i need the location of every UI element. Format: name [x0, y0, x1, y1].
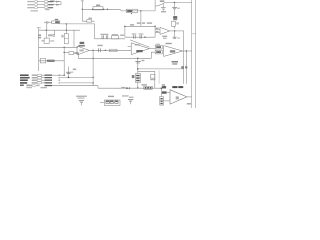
resistor R20 box	[87, 20, 92, 23]
wire loop right vertical	[154, 26, 156, 37]
label above K2	[108, 96, 114, 97]
op-amp U2A triangle	[131, 43, 149, 55]
wire U3 output	[187, 96, 192, 98]
relay K2 cell 3	[115, 101, 118, 104]
connector J1 note text row 4	[31, 10, 38, 11]
connector J2 pin box row 3	[37, 79, 41, 81]
label under U1A	[162, 36, 167, 37]
label above C12	[132, 33, 137, 34]
node loop top right	[154, 26, 155, 27]
connector J2 pin box row 5	[33, 85, 36, 87]
connector J1 pin label row 3	[27, 7, 34, 8]
node input rail	[63, 47, 64, 48]
wire row3 lead a	[42, 79, 45, 81]
wire C8 top lead	[174, 31, 176, 37]
op-amp U2B triangle	[164, 46, 183, 57]
node J2 row1 end	[63, 75, 64, 76]
wire row5 corner down	[97, 86, 99, 89]
wire loop left vertical	[124, 26, 126, 37]
capacitor C3 box row3	[45, 7, 48, 9]
wire node down to R19	[160, 88, 162, 96]
wire drop from S1 to R5	[46, 23, 48, 30]
resistor R11 box	[155, 45, 162, 49]
capacitor C6 plates	[172, 7, 177, 9]
label above R11	[156, 44, 160, 45]
wire top rail left	[82, 9, 155, 11]
wire U2A minus stub	[128, 45, 132, 47]
wire right vertical bus A	[183, 31, 185, 84]
wire V9 vertical x154.8	[154, 71, 156, 88]
wire rail y68.9	[138, 68, 184, 70]
connector J2 small text row 1	[32, 75, 37, 76]
optocoupler U4 bar 3	[150, 87, 152, 89]
label above R1	[50, 0, 55, 1]
label U2B inside	[170, 50, 175, 52]
capacitor C11 plates	[106, 35, 108, 39]
label right of R4	[176, 22, 179, 24]
node top rail right	[140, 10, 141, 11]
wire corner drop x94.6	[94, 24, 96, 39]
switch S1 box	[52, 21, 60, 24]
wire into S1	[44, 21, 52, 23]
label U3 input net top	[162, 86, 166, 88]
label under row3	[45, 9, 50, 10]
connector J1 pin box row 2	[35, 4, 38, 6]
capacitor C13 plates	[140, 35, 142, 39]
label D2 left	[121, 87, 125, 88]
capacitor C15 plates	[99, 48, 101, 52]
label C6 plus mark	[177, 8, 179, 9]
connector J3 marks second	[38, 37, 41, 39]
wire U1B output rail y48.1	[89, 49, 131, 51]
label above C13	[139, 33, 144, 34]
wire V2 vertical x64.2	[63, 47, 65, 75]
wire V3 vertical x68.3	[68, 67, 70, 78]
wire row1 lead a	[42, 74, 45, 76]
resistor R4 box	[172, 21, 176, 26]
diode D2 bar	[128, 87, 130, 89]
label GND net left	[80, 42, 85, 44]
border rail left line	[191, 0, 193, 108]
diode D1 inner mark	[127, 10, 132, 12]
relay K2 cell 2 top	[110, 101, 113, 102]
label above U2B LM358	[166, 43, 172, 44]
wire rail y38.8	[95, 38, 125, 40]
connector J2 small text row 4	[32, 82, 37, 83]
relay K2 cell 3 top	[115, 101, 118, 102]
diode D3 box	[151, 74, 155, 78]
connector J2 pin box row 4	[37, 82, 41, 84]
label under U2B second	[172, 63, 177, 64]
bus V1 tee top	[37, 27, 41, 29]
op-amp U1A triangle	[160, 27, 170, 34]
connector J1 pin box row 3	[35, 7, 38, 9]
wire row2 lead a	[42, 77, 45, 79]
resistor R11 inner bar	[156, 46, 161, 48]
resistor R2 body	[48, 4, 54, 5]
wire drop to R5	[46, 30, 48, 38]
wire U3 minus input	[163, 100, 170, 102]
node after C15	[105, 50, 106, 51]
label above loop right	[147, 22, 152, 23]
wire C19 bottom lead	[130, 101, 132, 104]
resistor R13 band 3	[136, 80, 140, 82]
label C9 value	[48, 34, 52, 36]
connector J1 pin label row 1	[27, 1, 34, 2]
resistor R9 body	[47, 60, 55, 62]
wire through R20	[82, 20, 94, 22]
wire stub up x151.3	[151, 52, 155, 58]
relay K2 cell 1 top	[106, 101, 109, 102]
label above U1B	[79, 45, 85, 47]
wire drop from +12V node	[81, 9, 83, 21]
wire mid rail y58.3	[78, 57, 151, 59]
resistor R8 box	[69, 52, 74, 55]
wire mid rail y30	[39, 29, 80, 31]
contact mark row2	[59, 77, 61, 78]
wire U3 plus input	[167, 91, 170, 93]
node at +12V rail	[82, 9, 83, 10]
wire into K2	[100, 101, 104, 103]
contact mark row4	[59, 82, 61, 83]
resistor R17 body	[45, 82, 53, 83]
wire loop vertical	[60, 2, 62, 5]
wire bottom bus y88.5	[98, 87, 161, 89]
relay K2 box	[104, 100, 120, 105]
node V2 tap	[63, 52, 64, 53]
connector J2 small text row 3	[32, 80, 37, 81]
wire vertical x155 top	[154, 0, 156, 11]
connector J2 bold label row 1	[20, 74, 29, 76]
resistor R13 band 1	[136, 75, 140, 77]
wire top-right rail	[165, 2, 192, 4]
node loop top left	[124, 26, 125, 27]
wire V4 vertical x92.9	[92, 50, 94, 85]
resistor R6 box	[64, 34, 68, 44]
label U2A inside	[136, 50, 142, 52]
wire feedback diagonal U2A	[130, 40, 150, 47]
label C17	[73, 69, 76, 71]
diode D2 triangle	[126, 87, 129, 89]
wire U2A output	[149, 48, 155, 50]
wire input rail y47.3	[39, 46, 78, 48]
label above S1	[55, 19, 58, 20]
label U1A pin2	[156, 28, 159, 29]
capacitor C18 plates	[79, 101, 84, 103]
node U1B output	[92, 50, 93, 51]
label above U3	[172, 86, 177, 88]
label right of C8	[177, 37, 179, 38]
diode DB row2	[56, 4, 59, 5]
wire row1 to loop	[54, 1, 61, 3]
relay K2 cell 1	[106, 101, 109, 104]
electrolytic C7 band	[173, 17, 177, 18]
node U1A output	[174, 30, 175, 31]
node mid rail a	[46, 30, 47, 31]
node bottom bus right	[161, 87, 163, 89]
contact mark row1	[59, 75, 61, 76]
wire drop to R6	[65, 24, 67, 34]
wire drop to C9	[54, 30, 56, 34]
label pin6 on bus B	[185, 66, 187, 68]
label TP1	[160, 0, 165, 2]
capacitor C14 box	[40, 59, 46, 63]
resistor R12 box	[155, 50, 162, 54]
connector J2 row5 text b	[26, 85, 32, 87]
bus V1 vertical	[38, 28, 40, 71]
wire drop from rail to loop top	[140, 11, 142, 26]
resistor R16 body	[45, 80, 53, 81]
capacitor C19 plates	[128, 100, 133, 102]
wire row3 lead	[37, 7, 44, 9]
connector J2 row5 marks	[36, 85, 39, 86]
wire C5 bottom lead	[162, 9, 164, 11]
wire left stub x159.1	[158, 70, 160, 83]
resistor R18 body	[45, 85, 53, 86]
wire rail y71.3	[138, 70, 155, 72]
wire C6 top lead	[174, 3, 176, 8]
wire right vertical bus B	[185, 51, 187, 84]
connector J2 pin box row 2	[37, 77, 41, 79]
wire arc to top-right rail	[155, 3, 165, 7]
wire lower-left rail y60.8	[39, 60, 64, 62]
node mid rail b	[66, 30, 67, 31]
connector J2 row6 tiny text	[41, 87, 47, 88]
label right of K2 label	[122, 95, 129, 96]
resistor R6 mid line	[64, 37, 68, 39]
label above loop left	[137, 22, 141, 23]
wire C6 bottom lead	[174, 9, 176, 16]
capacitor C12 plates	[134, 35, 136, 39]
capacitor C8 plates	[173, 37, 177, 39]
node U2B output	[186, 50, 187, 51]
border rail tie	[192, 33, 196, 35]
resistor R3 body	[48, 7, 53, 8]
resistor R14 body	[45, 75, 53, 76]
label C17 value	[71, 72, 74, 73]
capacitor C17 plate	[66, 72, 71, 73]
label C5 value	[161, 11, 166, 12]
optocoupler U4 bar 2	[147, 87, 149, 89]
label U3 inside	[176, 96, 179, 99]
label U1A pin3	[156, 31, 159, 32]
node V8 top	[137, 58, 138, 59]
connector J2 row5 text	[20, 85, 24, 87]
connector J2 bold label row 3	[20, 79, 28, 81]
label below D1	[131, 13, 132, 14]
label above loop mid	[142, 22, 145, 23]
label under U1A second	[163, 38, 167, 39]
label R13 left	[132, 75, 135, 78]
label above C15	[97, 45, 102, 47]
label above R20	[88, 18, 91, 19]
wire S1 to corner	[60, 23, 95, 25]
power flag +12V	[81, 1, 84, 3]
wire +12V vertical	[81, 2, 83, 9]
resistor R13 box	[136, 73, 141, 82]
capacitor C2 box row2	[45, 4, 48, 6]
label values under R5	[50, 40, 54, 41]
wire U2B output	[183, 50, 192, 52]
wire J2 row5	[52, 85, 98, 87]
capacitor C10 plates	[102, 35, 104, 39]
resistor R7 box	[112, 36, 119, 39]
wire row2 lead	[37, 4, 44, 6]
electrolytic C7 body	[173, 16, 177, 20]
optocoupler U4 bar 1	[145, 87, 147, 89]
wire R13 bottom lead	[137, 83, 139, 89]
node loop bottom	[144, 37, 145, 38]
connector J2 pin box row 1	[37, 74, 41, 76]
label above C19	[129, 97, 133, 98]
wire J2 row4 long	[61, 82, 94, 84]
resistor R1 body	[48, 1, 54, 2]
wire R8 elbow	[74, 53, 79, 58]
wire row1 lead	[37, 1, 44, 3]
label below U3 output	[187, 103, 191, 104]
connector J2 bold label row 4	[20, 82, 27, 84]
label text above C18 line2	[78, 98, 85, 99]
label left of loop top	[130, 24, 134, 25]
wire row2 to loop	[54, 4, 61, 6]
switch S1 inner dark	[55, 21, 59, 23]
connector J2 small text row 2	[32, 77, 37, 78]
border rail right line	[195, 0, 197, 108]
wire drop x74	[73, 30, 75, 47]
op-amp U1B triangle	[77, 46, 89, 55]
wire loop bottom y37.2	[125, 36, 155, 38]
capacitor C1 box row1	[45, 1, 48, 3]
node top rail	[92, 9, 93, 10]
connector J2 bold label row 2	[20, 77, 30, 79]
node V8 mid	[137, 68, 139, 70]
capacitor C9 mark	[53, 35, 55, 37]
wire R4 to op-amp	[174, 26, 176, 28]
wire J2 row2 long	[61, 76, 94, 78]
label R8	[74, 52, 78, 54]
label D3 below	[150, 79, 155, 80]
capacitor C16 plates	[135, 61, 141, 63]
wire row4 lead a	[42, 82, 45, 84]
connector J1 pin label row 2	[27, 4, 34, 5]
optocoupler U4 box	[144, 86, 153, 89]
wire U1A output	[170, 30, 184, 32]
wire C5 top lead	[162, 3, 164, 7]
label right of C16	[141, 60, 144, 61]
label U3 input net bottom	[162, 91, 167, 93]
node top-right rail	[174, 2, 175, 3]
label inside U1B	[79, 50, 83, 52]
label squiggle above node	[162, 84, 165, 85]
op-amp U1A input stubs	[155, 29, 160, 32]
relay K2 cell 2	[110, 101, 113, 104]
resistor R15 body	[45, 77, 53, 78]
label above K1	[96, 5, 100, 7]
connector J3 marks	[38, 34, 41, 36]
label left of loop	[120, 35, 124, 36]
label above U2A	[135, 44, 140, 45]
diode D1 box on rail	[126, 9, 137, 13]
contact mark before S1	[46, 22, 48, 24]
resistor R19 band 2	[160, 100, 162, 101]
connector J1 pin box row 1	[35, 1, 38, 3]
resistor R19 box	[160, 97, 164, 106]
connector J2 row6 text a	[26, 87, 32, 88]
resistor R19 band 3	[160, 103, 162, 104]
node V3 bottom	[68, 77, 70, 79]
label under U2B	[172, 61, 179, 63]
resistor R13 band 2	[136, 77, 140, 79]
wire tap to R8	[64, 51, 69, 53]
label text above C18 line1	[76, 96, 87, 97]
resistor R10 body	[109, 49, 117, 52]
label above R7	[112, 34, 118, 35]
node V4 at y58.3	[92, 58, 93, 59]
wire V8 vertical x137.8	[137, 58, 139, 73]
diode DA row1	[56, 1, 59, 2]
resistor R5 box	[44, 38, 49, 43]
node V4 at y78	[92, 77, 93, 78]
label pin5 on bus A	[181, 66, 183, 68]
wire loop top y26.3	[125, 25, 155, 27]
resistor R19 band 1	[160, 98, 162, 99]
wire J2 row1	[52, 74, 64, 76]
label above C10	[100, 34, 108, 35]
op-amp U3 triangle	[170, 90, 187, 104]
capacitor C5 plates	[161, 8, 166, 10]
wire C18 bottom lead	[80, 102, 82, 105]
relay K1 coil box	[93, 7, 103, 10]
label above U4	[142, 84, 148, 85]
resistor R12 inner bar	[156, 51, 161, 53]
contact mark row3	[59, 80, 61, 81]
